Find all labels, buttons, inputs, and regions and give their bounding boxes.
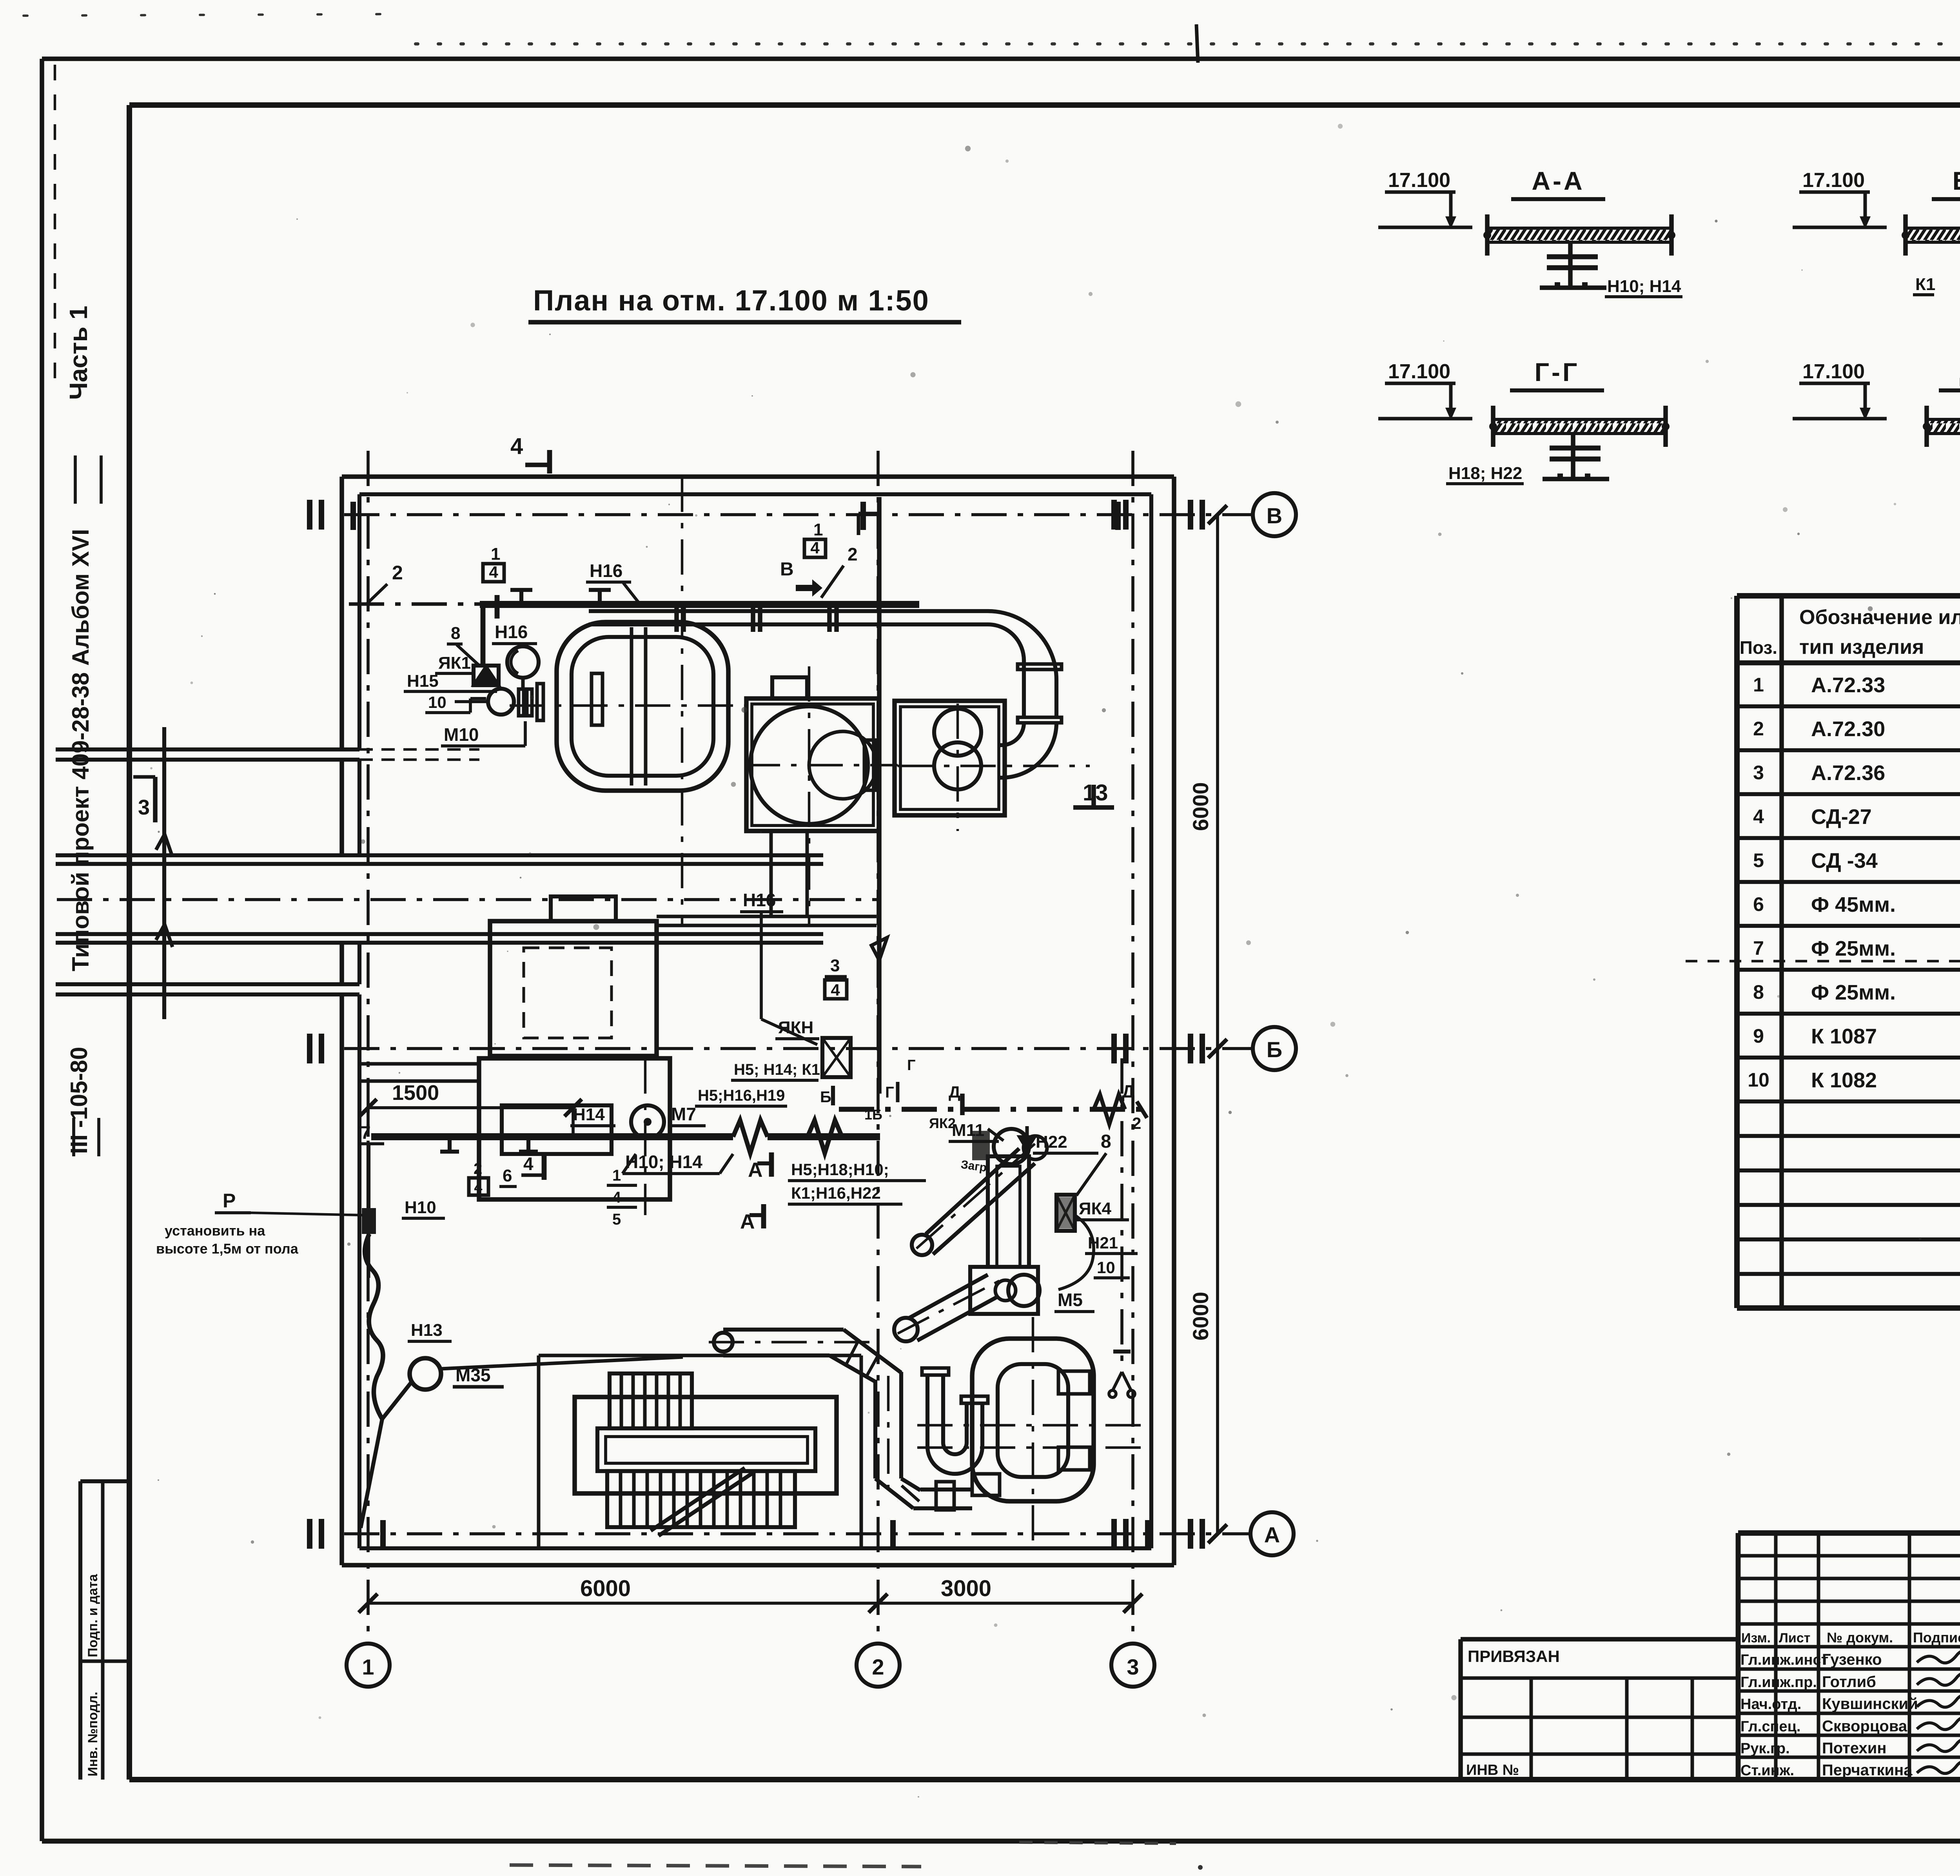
svg-text:ЯК4: ЯК4 — [1079, 1199, 1111, 1218]
svg-text:1: 1 — [813, 520, 823, 539]
svg-text:А: А — [1264, 1522, 1280, 1547]
svg-text:СД -34: СД -34 — [1811, 849, 1878, 873]
svg-text:Н13: Н13 — [411, 1321, 443, 1340]
svg-text:№ докум.: № докум. — [1827, 1629, 1893, 1646]
svg-text:ЯКН: ЯКН — [778, 1018, 813, 1037]
svg-text:10: 10 — [1748, 1069, 1769, 1091]
svg-text:1: 1 — [612, 1167, 621, 1184]
svg-text:Ст.инж.: Ст.инж. — [1740, 1762, 1794, 1779]
svg-text:Г: Г — [907, 1057, 916, 1074]
svg-text:Подп. и дата: Подп. и дата — [85, 1574, 100, 1657]
svg-text:4: 4 — [1753, 806, 1764, 827]
svg-text:3: 3 — [1127, 1655, 1139, 1679]
svg-text:5: 5 — [612, 1211, 621, 1228]
svg-text:Г: Г — [885, 1084, 894, 1101]
svg-text:Н10; Н14: Н10; Н14 — [1607, 277, 1681, 296]
svg-text:1: 1 — [1753, 674, 1764, 696]
svg-text:Г-Г: Г-Г — [1535, 357, 1580, 386]
svg-text:Ф 45мм.: Ф 45мм. — [1811, 893, 1896, 916]
svg-text:Н18; Н22: Н18; Н22 — [1448, 464, 1522, 483]
svg-text:6: 6 — [503, 1166, 512, 1185]
svg-text:А.72.30: А.72.30 — [1811, 717, 1885, 741]
svg-text:СД-27: СД-27 — [1811, 805, 1872, 829]
svg-text:9: 9 — [1753, 1025, 1764, 1047]
svg-text:В: В — [1267, 503, 1282, 528]
svg-text:Д: Д — [1122, 1081, 1135, 1101]
svg-text:10: 10 — [1097, 1258, 1115, 1277]
svg-text:тип изделия: тип изделия — [1799, 636, 1924, 659]
svg-text:3: 3 — [830, 956, 840, 975]
svg-text:2: 2 — [872, 1655, 884, 1679]
svg-text:7: 7 — [1753, 937, 1764, 959]
svg-text:К 1082: К 1082 — [1811, 1069, 1877, 1092]
svg-text:3000: 3000 — [941, 1576, 991, 1601]
svg-text:1500: 1500 — [392, 1081, 439, 1105]
svg-text:Р: Р — [223, 1190, 236, 1212]
svg-text:ИНВ №: ИНВ № — [1466, 1762, 1519, 1778]
svg-text:Н15: Н15 — [407, 671, 439, 691]
svg-text:Н22: Н22 — [1036, 1132, 1067, 1152]
svg-text:4: 4 — [831, 981, 840, 999]
svg-text:10: 10 — [428, 693, 446, 711]
svg-text:8: 8 — [451, 624, 460, 643]
svg-text:17.100: 17.100 — [1802, 169, 1865, 192]
svg-text:4: 4 — [510, 434, 523, 459]
svg-text:5: 5 — [1753, 849, 1764, 871]
svg-text:6000: 6000 — [1188, 1292, 1213, 1341]
svg-text:Поз.: Поз. — [1740, 637, 1777, 658]
svg-text:Н5;Н16,Н19: Н5;Н16,Н19 — [698, 1087, 785, 1104]
svg-text:А.72.36: А.72.36 — [1811, 761, 1885, 785]
svg-text:2: 2 — [392, 562, 403, 584]
svg-text:К1: К1 — [1915, 275, 1935, 294]
svg-text:17.100: 17.100 — [1802, 360, 1865, 383]
svg-text:7: 7 — [361, 1122, 371, 1143]
svg-text:Н16: Н16 — [495, 622, 528, 642]
svg-text:Кувшинский: Кувшинский — [1822, 1695, 1918, 1713]
svg-text:Потехин: Потехин — [1822, 1740, 1887, 1757]
svg-text:Н10: Н10 — [405, 1198, 436, 1217]
svg-text:Перчаткина: Перчаткина — [1822, 1762, 1913, 1779]
svg-text:Н14: Н14 — [573, 1105, 605, 1124]
svg-text:М5: М5 — [1058, 1290, 1083, 1310]
svg-text:К 1087: К 1087 — [1811, 1025, 1877, 1048]
svg-text:К1;Н16,Н22: К1;Н16,Н22 — [791, 1184, 881, 1202]
svg-text:Нач.отд.: Нач.отд. — [1740, 1696, 1801, 1713]
svg-text:В: В — [780, 559, 794, 580]
svg-text:3: 3 — [1753, 762, 1764, 784]
svg-text:М11: М11 — [952, 1121, 984, 1140]
svg-text:ЯК2: ЯК2 — [929, 1115, 956, 1131]
svg-text:План на отм. 17.100 м 1:: План на отм. 17.100 м 1:50 — [533, 284, 929, 317]
svg-text:1: 1 — [362, 1655, 374, 1679]
svg-text:высоте 1,5м от пола: высоте 1,5м от пола — [156, 1241, 299, 1257]
svg-text:Гл.спец.: Гл.спец. — [1740, 1718, 1800, 1735]
svg-text:2: 2 — [1132, 1114, 1141, 1132]
svg-text:Гл.инж.пр.: Гл.инж.пр. — [1740, 1674, 1817, 1691]
svg-text:Н21: Н21 — [1088, 1234, 1118, 1252]
svg-text:2: 2 — [1753, 718, 1764, 740]
svg-text:Подпись: Подпись — [1913, 1629, 1960, 1646]
svg-text:Лист: Лист — [1779, 1631, 1810, 1646]
svg-text:Скворцова: Скворцова — [1822, 1718, 1907, 1735]
svg-text:ЯК1: ЯК1 — [438, 653, 471, 673]
svg-text:6000: 6000 — [580, 1576, 631, 1601]
svg-text:4: 4 — [474, 1179, 482, 1196]
svg-text:6: 6 — [1753, 893, 1764, 915]
svg-text:1: 1 — [491, 544, 500, 564]
svg-text:3: 3 — [138, 796, 150, 819]
svg-text:8: 8 — [1753, 981, 1764, 1003]
svg-text:Обозначение или: Обозначение или — [1799, 606, 1960, 629]
svg-text:6000: 6000 — [1188, 782, 1213, 831]
svg-text:Б-Б: Б-Б — [1953, 166, 1960, 195]
svg-text:А.72.33: А.72.33 — [1811, 673, 1885, 697]
svg-text:4: 4 — [810, 539, 820, 557]
svg-text:Д: Д — [949, 1083, 960, 1101]
svg-text:8: 8 — [1101, 1131, 1111, 1152]
svg-text:Гл.инж.инст: Гл.инж.инст — [1740, 1652, 1828, 1668]
svg-text:2: 2 — [848, 544, 858, 564]
svg-text:Н5; Н14; К1: Н5; Н14; К1 — [734, 1061, 820, 1078]
svg-text:III -105-80: III -105-80 — [66, 1047, 92, 1154]
svg-text:Инв. №подл.: Инв. №подл. — [85, 1692, 100, 1776]
svg-text:Гузенко: Гузенко — [1822, 1651, 1882, 1668]
svg-text:Рук.гр.: Рук.гр. — [1740, 1740, 1790, 1757]
svg-text:М10: М10 — [444, 724, 479, 745]
svg-text:Б: Б — [820, 1089, 831, 1106]
svg-text:17.100: 17.100 — [1388, 360, 1450, 383]
svg-text:М35: М35 — [456, 1365, 490, 1385]
svg-text:17.100: 17.100 — [1388, 169, 1450, 192]
svg-text:4: 4 — [612, 1189, 621, 1206]
svg-text:2: 2 — [474, 1160, 482, 1177]
svg-text:Часть 1: Часть 1 — [64, 306, 93, 400]
svg-text:А-А: А-А — [1532, 166, 1584, 195]
svg-text:4: 4 — [489, 563, 498, 581]
svg-text:Н16: Н16 — [590, 561, 622, 581]
svg-text:4: 4 — [523, 1154, 534, 1174]
svg-text:Н5;Н18;Н10;: Н5;Н18;Н10; — [791, 1160, 889, 1179]
svg-text:Ф 25мм.: Ф 25мм. — [1811, 937, 1896, 960]
svg-text:Изм.: Изм. — [1741, 1631, 1771, 1646]
svg-text:Готлиб: Готлиб — [1822, 1673, 1876, 1691]
svg-text:Ф 25мм.: Ф 25мм. — [1811, 981, 1896, 1004]
svg-text:установить на: установить на — [165, 1223, 265, 1239]
svg-text:Б: Б — [1267, 1037, 1282, 1062]
svg-text:ПРИВЯЗАН: ПРИВЯЗАН — [1468, 1647, 1560, 1666]
svg-text:1Б: 1Б — [864, 1107, 882, 1123]
svg-text:М7: М7 — [671, 1104, 696, 1124]
